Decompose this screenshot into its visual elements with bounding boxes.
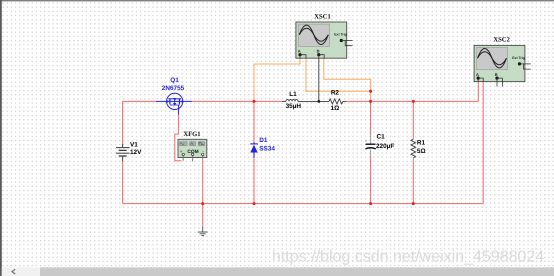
junction dots — [201, 90, 415, 205]
XSC2 pin B (unconnected stubs) — [495, 77, 498, 80]
XSC1 Ext Trig pin — [340, 39, 343, 42]
wire: R2 right lead black — [343, 100, 347, 102]
svg-text:35µH: 35µH — [286, 103, 302, 110]
svg-text:B: B — [495, 72, 498, 77]
node: ground rail at C1 — [369, 202, 372, 205]
svg-text:2N6755: 2N6755 — [162, 85, 185, 92]
svg-text:220µF: 220µF — [376, 143, 394, 150]
pin COM — [192, 156, 194, 162]
wire: XSC1 B- orange — [324, 58, 371, 101]
resistor R2 — [329, 99, 343, 104]
function generator XFG1 — [178, 139, 207, 161]
capacitor C1 — [365, 134, 376, 156]
diode D1 — [250, 142, 258, 157]
wire: R1 branch bottom — [412, 162, 414, 204]
svg-text:C1: C1 — [377, 134, 386, 141]
XFG1 body — [178, 139, 207, 157]
left window border — [0, 0, 2, 276]
wire: R1 branch top — [412, 101, 414, 136]
XSC2 pin A — [477, 77, 480, 80]
wire: D1 branch bottom — [253, 158, 255, 204]
scrollbar left arrow — [12, 269, 15, 274]
svg-text:XSC2: XSC2 — [493, 36, 510, 43]
XSC2 waveform traces — [478, 49, 507, 68]
node: scope A-/B- junction — [369, 90, 372, 93]
svg-text:https://blog.csdn.net/weixin_4: https://blog.csdn.net/weixin_45988024 — [272, 248, 544, 265]
bottom scrollbar track — [2, 267, 554, 276]
svg-text:1Ω: 1Ω — [331, 105, 340, 112]
wire: C1 branch bottom — [370, 156, 372, 204]
XSC1 waveform traces — [299, 25, 328, 44]
top window border — [0, 0, 554, 1]
svg-text:B: B — [317, 49, 320, 54]
wire: gate to XFG1 plus — [175, 115, 182, 161]
node: C1 top junction — [369, 100, 372, 103]
transistor Q1 — [156, 93, 192, 114]
wire: XSC1 A- orange — [306, 58, 371, 91]
XSC1 pin B — [317, 53, 320, 56]
node: ground rail at R1 — [412, 202, 415, 205]
svg-text:XFG1: XFG1 — [183, 131, 200, 138]
wire: bottom ground rail — [123, 203, 484, 205]
XSC1 screen — [298, 24, 329, 46]
svg-text:5Ω: 5Ω — [417, 148, 426, 155]
oscilloscope XSC1 — [296, 22, 353, 58]
svg-text:R1: R1 — [417, 139, 426, 146]
battery V1 — [116, 144, 130, 161]
wire: XFG1 minus to ground rail — [202, 158, 204, 204]
wire: MOSFET source to node A — [192, 100, 282, 102]
XSC2 screen — [477, 48, 508, 70]
node: ground rail at D1 — [253, 202, 256, 205]
wire: L1/R2 black segment — [282, 100, 286, 102]
svg-text:+: + — [365, 139, 368, 144]
svg-text:D1: D1 — [259, 137, 268, 144]
oscilloscope XSC2 — [474, 45, 531, 86]
bottom scrollbar thumb — [40, 267, 554, 276]
svg-text:Ext Trig: Ext Trig — [512, 56, 524, 60]
XSC2 body — [474, 45, 525, 81]
wire: XSC2 A+ vertical — [477, 82, 479, 101]
wire: D1 branch top — [253, 101, 255, 142]
wire: C1 branch top — [370, 101, 372, 134]
pin - — [202, 156, 204, 159]
wire: ground stub red — [202, 204, 204, 227]
wire: battery negative vertical — [122, 161, 124, 203]
svg-text:A: A — [298, 48, 301, 53]
node: L1/R2 midpoint (black) — [317, 100, 320, 103]
svg-text:V1: V1 — [130, 142, 138, 149]
XSC2 Ext Trig pin — [518, 62, 521, 65]
wire: XSC1 A+ orange — [254, 58, 300, 101]
svg-text:SS34: SS34 — [259, 146, 275, 153]
svg-text:L1: L1 — [289, 91, 297, 98]
inductor L1 — [286, 99, 298, 101]
node: MOSFET/L1/D1/scope junction — [253, 100, 256, 103]
wire: R2 to XSC2 A+ (red) — [347, 100, 479, 102]
node: ground rail at XFG1 — [201, 202, 204, 205]
wire: XSC1 B+ black — [318, 58, 320, 101]
XFG1 waveform buttons — [180, 142, 188, 146]
svg-text:Q1: Q1 — [170, 77, 179, 84]
wire: XSC2 A- vertical to bottom rail — [482, 82, 484, 204]
node: R1 top junction — [412, 100, 415, 103]
ground — [198, 227, 208, 236]
wire: battery positive vertical — [122, 101, 124, 143]
pin + — [182, 156, 184, 161]
svg-text:Ext Trig: Ext Trig — [334, 33, 346, 37]
svg-text:XSC1: XSC1 — [314, 14, 331, 21]
svg-text:12V: 12V — [130, 149, 142, 156]
wire: battery top to MOSFET (red) — [123, 100, 156, 102]
svg-text:R2: R2 — [331, 89, 340, 96]
XSC1 pin A — [298, 53, 301, 56]
XSC1 body — [296, 22, 347, 58]
resistor R1 — [411, 137, 416, 162]
svg-text:+: + — [180, 149, 183, 154]
svg-text:A: A — [476, 72, 479, 77]
